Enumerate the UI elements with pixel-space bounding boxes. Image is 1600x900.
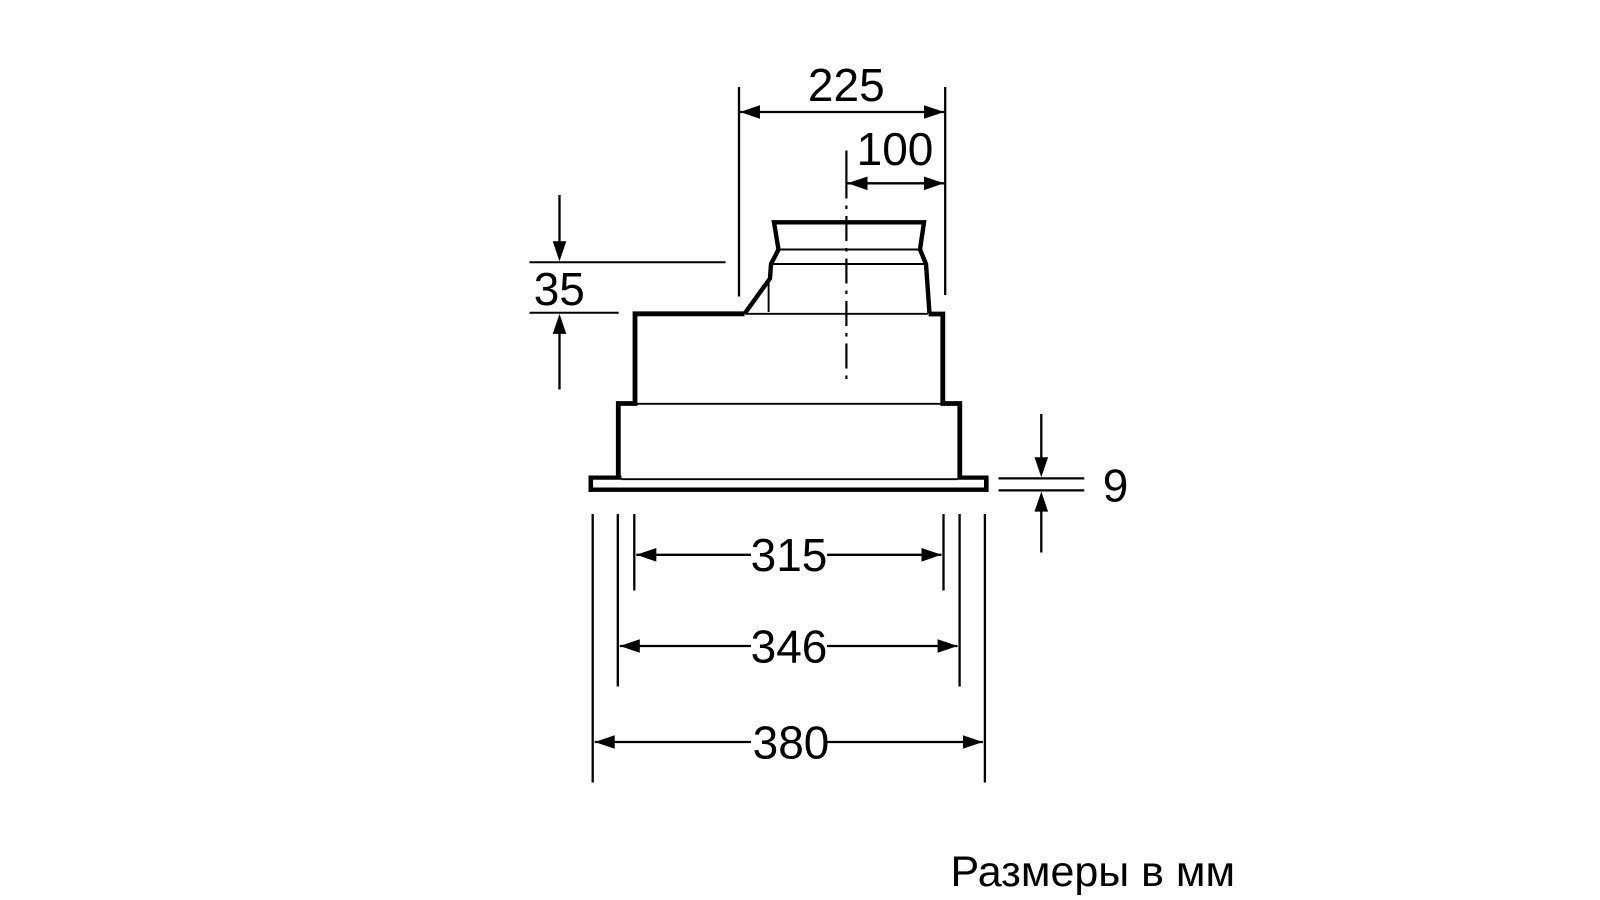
dim 380 line left: [595, 741, 751, 743]
flange top left ledge: [589, 476, 622, 480]
dim 346 ext left: [617, 514, 619, 687]
dim 380 arrow left: [595, 735, 615, 749]
dim 9 lower arrow line: [1040, 508, 1042, 553]
dim 380 arrow right: [963, 735, 983, 749]
dim 346 arrow right: [938, 639, 958, 653]
dim 9 upper ref line: [999, 477, 1085, 479]
dim 35 lower arrow line: [558, 330, 560, 390]
dim 380 ext right: [984, 514, 986, 783]
dim 9 upper arrowhead: [1035, 457, 1049, 477]
hood top left: [618, 314, 744, 478]
hood top hidden line: [746, 313, 928, 315]
dim 35 lower ref line: [530, 312, 619, 314]
flange right end: [984, 476, 989, 492]
dim 100 arrow left: [848, 177, 868, 191]
dim 346 ext right: [958, 514, 960, 687]
dim 225 line: [740, 111, 944, 113]
svg-text:225: 225: [808, 59, 885, 111]
svg-text:315: 315: [751, 529, 828, 581]
duct flare left: [745, 250, 779, 314]
svg-text:Размеры в мм: Размеры в мм: [951, 848, 1236, 896]
dim 315 ext left: [633, 514, 635, 591]
flange top interior line: [622, 478, 958, 480]
dim 225 arrow left: [740, 105, 760, 119]
dim 346 line right: [827, 645, 958, 647]
flange left end: [588, 476, 593, 492]
svg-text:380: 380: [753, 716, 830, 768]
dim 100 arrow right: [924, 177, 944, 191]
dim 315 arrow left: [636, 548, 656, 562]
hood top right: [929, 314, 960, 478]
dim 9 lower arrowhead: [1035, 492, 1049, 512]
dim 315 line left: [636, 554, 751, 556]
svg-text:100: 100: [857, 123, 934, 175]
duct cap joint line: [779, 249, 921, 251]
dim 100 line: [848, 182, 945, 184]
dim 380 line right: [827, 741, 983, 743]
dim 315 ext right: [942, 514, 944, 591]
flange top right ledge: [958, 476, 987, 480]
svg-text:35: 35: [534, 263, 585, 315]
dim 380 ext left: [592, 514, 594, 783]
dim 35 upper arrowhead: [553, 241, 567, 261]
dim 315 line right: [827, 554, 942, 556]
flange bottom: [589, 488, 989, 492]
duct cap outline: [774, 222, 924, 249]
svg-text:9: 9: [1103, 459, 1129, 511]
svg-text:346: 346: [751, 620, 828, 672]
dim 35 upper ref line: [530, 261, 726, 263]
dim 346 line left: [620, 645, 751, 647]
dim 225 arrow right: [924, 105, 944, 119]
duct flare bottom line: [771, 263, 926, 265]
dim 225 ext right: [944, 87, 946, 295]
dim 9 lower ref line: [999, 489, 1085, 491]
duct wall hidden left: [768, 278, 770, 312]
dim 346 arrow left: [620, 639, 640, 653]
dim 225 ext left: [738, 87, 740, 297]
step interior line: [635, 403, 943, 405]
dim 35 lower arrowhead: [553, 314, 567, 334]
centerline: [845, 151, 847, 380]
dim 315 arrow right: [922, 548, 942, 562]
dim 35 upper arrow line: [558, 195, 560, 245]
dim 9 upper arrow line: [1040, 414, 1042, 460]
duct flare right: [920, 250, 930, 314]
